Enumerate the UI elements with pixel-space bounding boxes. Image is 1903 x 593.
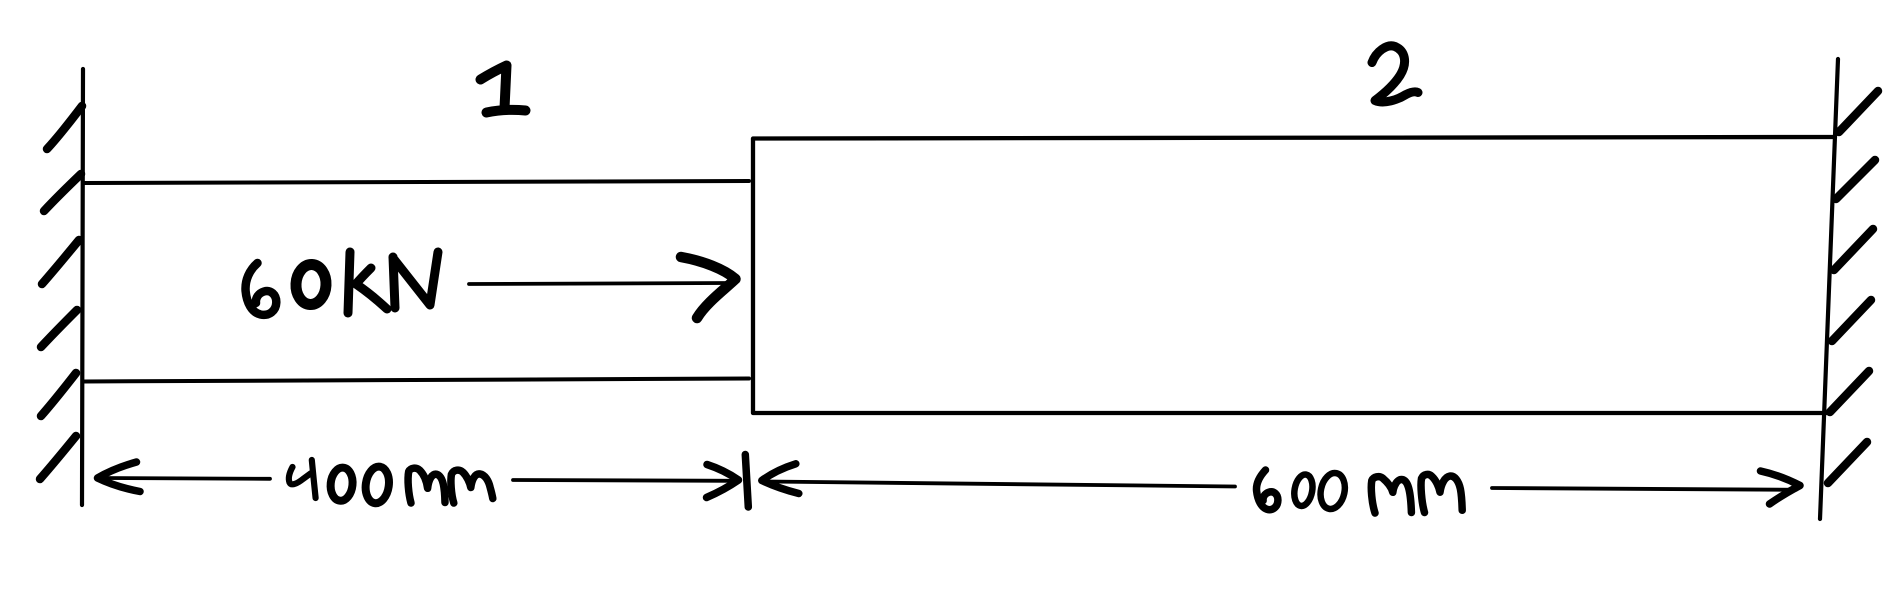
bar segment 1 top edge bbox=[84, 181, 749, 183]
left wall hatch 5 bbox=[41, 373, 76, 416]
dimension 400mm: left arrowhead bbox=[98, 462, 141, 492]
digit 0 bbox=[1292, 473, 1315, 507]
bar segment 2 outline bbox=[753, 137, 1835, 413]
left wall hatch 1 bbox=[47, 106, 82, 149]
letter N bbox=[393, 252, 438, 308]
letter m bbox=[1371, 477, 1411, 513]
left wall hatch 3 bbox=[42, 240, 79, 284]
dimension 600mm: left arrowhead bbox=[762, 464, 799, 494]
letter m bbox=[451, 470, 493, 503]
letter m bbox=[1421, 474, 1462, 512]
label 1 (segment 1) bbox=[481, 66, 526, 113]
dimension 600mm: right arrowhead bbox=[1761, 471, 1801, 504]
digit 0 bbox=[1317, 471, 1348, 512]
dimension 400mm: right arrowhead bbox=[707, 465, 739, 498]
force arrow shaft bbox=[469, 283, 729, 284]
right fixed support wall line bbox=[1820, 59, 1838, 519]
left fixed support wall line bbox=[82, 69, 83, 505]
right wall hatch 6 bbox=[1828, 442, 1867, 483]
force label 60kN bbox=[246, 252, 438, 315]
letter k bbox=[348, 252, 387, 313]
right wall hatch 1 bbox=[1839, 91, 1878, 132]
dimension 400mm: right shaft bbox=[513, 478, 734, 483]
dimension label 600 mm bbox=[1256, 470, 1462, 513]
digit 6 bbox=[1256, 470, 1277, 510]
dimension junction tick bbox=[745, 455, 748, 508]
dimension 400mm: left shaft bbox=[100, 476, 270, 481]
right wall hatch 4 bbox=[1832, 300, 1871, 341]
label 2 (segment 2) bbox=[1372, 46, 1418, 102]
right wall hatch 3 bbox=[1834, 229, 1873, 270]
dimension label 400 mm bbox=[289, 460, 493, 505]
bar segment 1 bottom edge bbox=[84, 379, 749, 382]
digit 0 bbox=[363, 465, 391, 505]
letter m bbox=[408, 468, 445, 503]
force arrowhead bbox=[681, 257, 736, 318]
right wall hatch 5 bbox=[1830, 371, 1869, 412]
dimension 600mm: left shaft bbox=[766, 482, 1235, 487]
digit 0 bbox=[329, 467, 354, 502]
right wall hatch 2 bbox=[1836, 160, 1875, 199]
digit 4 bbox=[289, 460, 316, 498]
left wall hatch 2 bbox=[44, 174, 81, 211]
dimension 600mm: right shaft bbox=[1492, 488, 1796, 490]
digit 0 bbox=[295, 264, 327, 306]
left wall hatch 4 bbox=[41, 310, 77, 347]
left wall hatch 6 bbox=[40, 436, 76, 479]
digit 6 bbox=[246, 263, 277, 315]
